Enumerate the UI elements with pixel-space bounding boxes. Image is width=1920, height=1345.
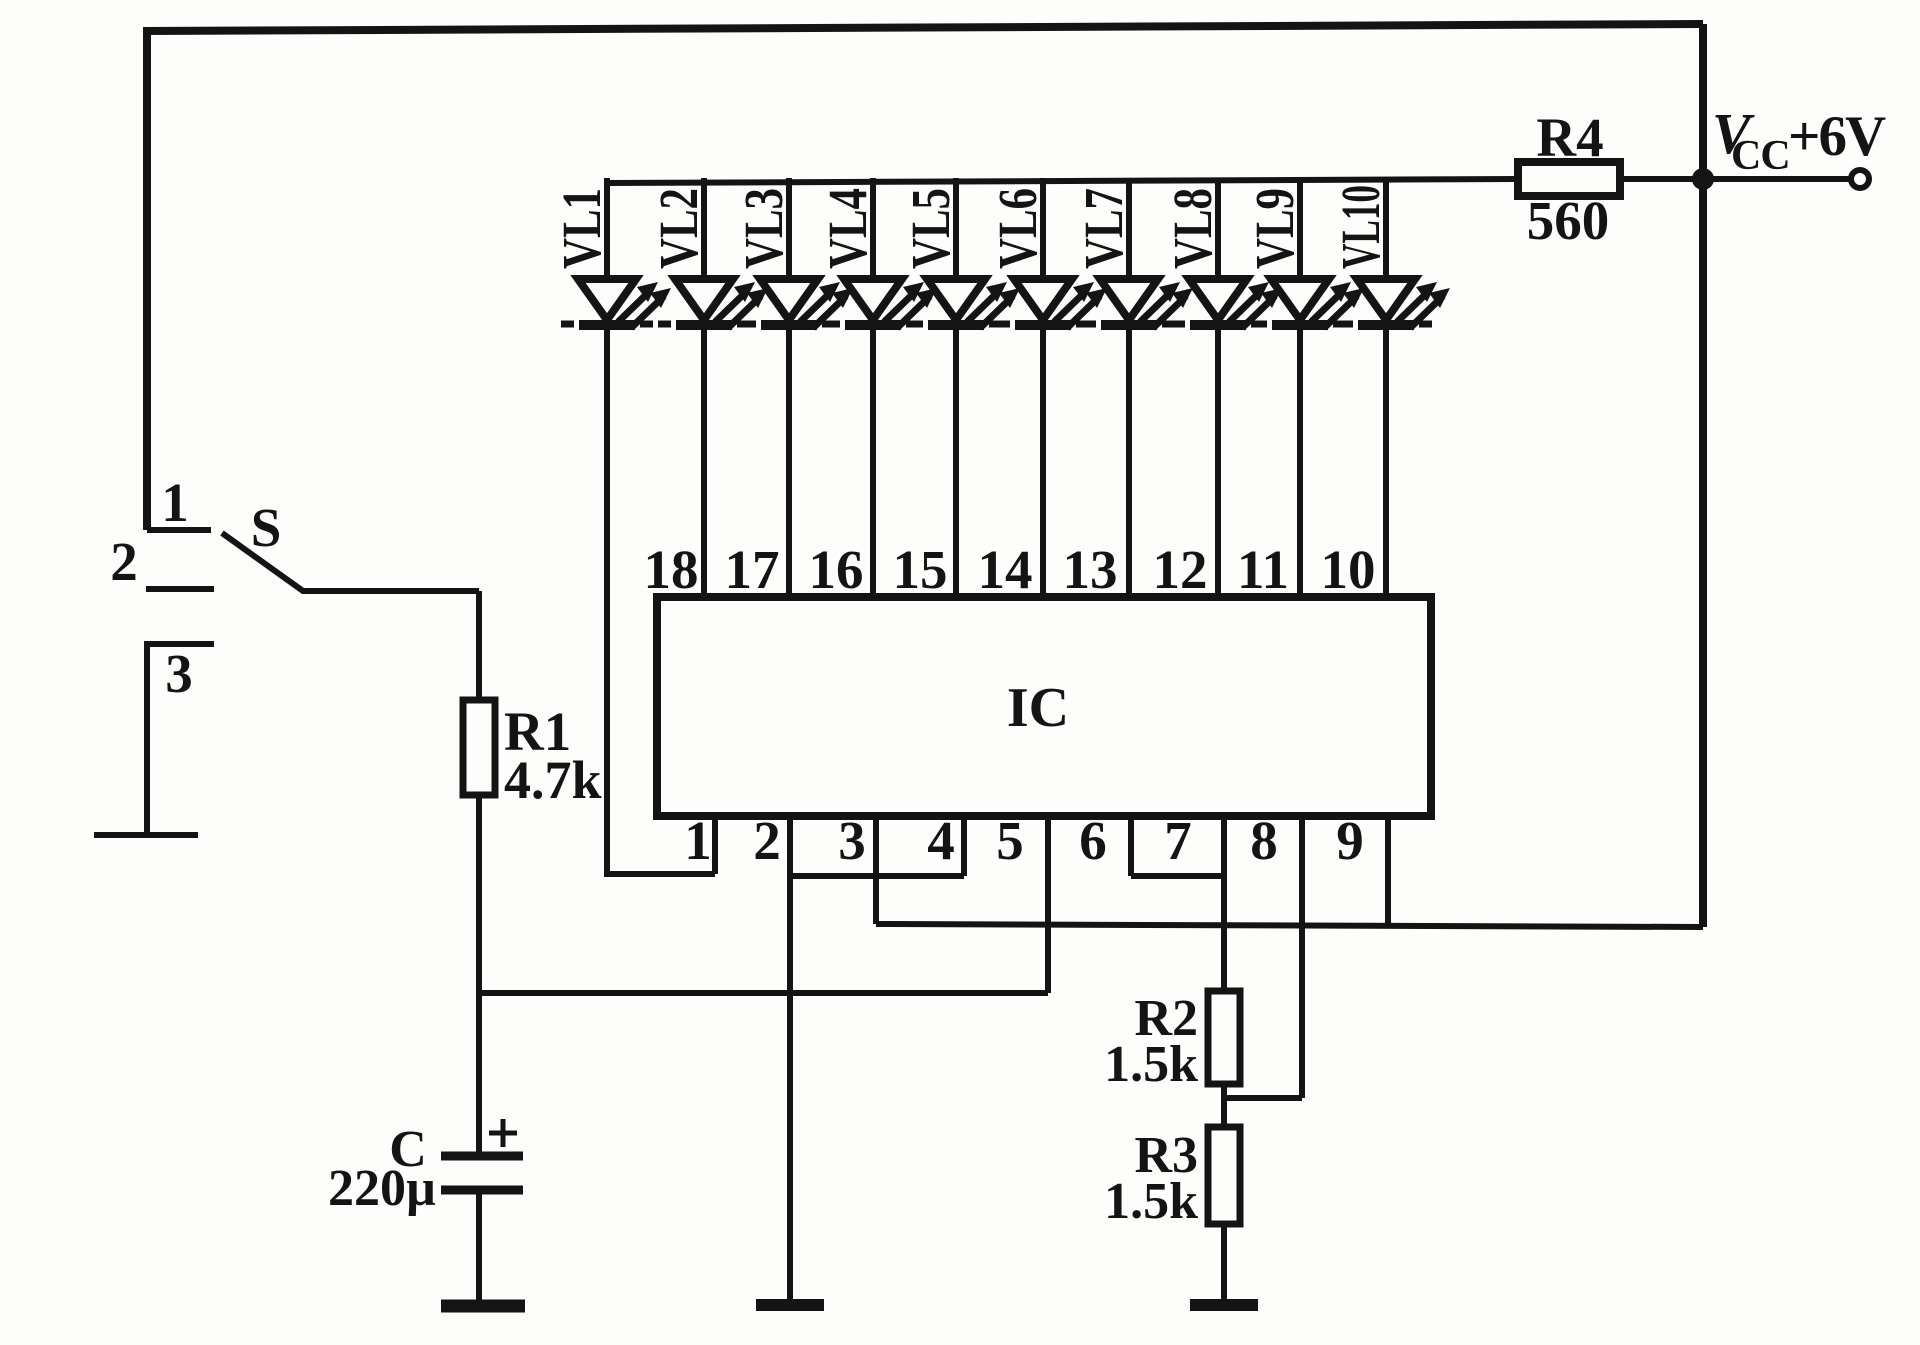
LED VL2	[648, 178, 768, 328]
switch S terminal 3	[147, 644, 214, 835]
svg-text:VL3: VL3	[733, 188, 794, 269]
wire R4 to Vcc node	[1620, 176, 1852, 182]
LED VL3	[733, 178, 853, 328]
Vcc +6V label	[1712, 101, 1886, 179]
resistor R4	[1518, 162, 1620, 196]
svg-text:R4: R4	[1536, 107, 1603, 168]
svg-text:VL8: VL8	[1162, 188, 1223, 269]
svg-text:11: 11	[1237, 539, 1289, 600]
svg-text:+6V: +6V	[1788, 105, 1886, 168]
svg-text:3: 3	[165, 643, 193, 704]
LED VL10	[1330, 178, 1450, 328]
node Vcc junction dot	[1692, 168, 1714, 190]
svg-text:1: 1	[161, 472, 189, 533]
wire pin 2 to pin 4	[790, 873, 964, 879]
IC pin 6 stub	[1128, 817, 1134, 876]
wire VL10 cathode to IC pin 10	[1383, 325, 1389, 597]
wire VL1 cathode down to pin-1 route	[604, 325, 610, 874]
IC pin 2 wire to ground	[787, 817, 793, 1301]
terminal 3 end bar	[94, 832, 198, 838]
LED VL7	[1073, 178, 1193, 328]
svg-text:220µ: 220µ	[328, 1160, 436, 1217]
svg-text:VL2: VL2	[648, 188, 709, 269]
IC pin 1 stub	[712, 817, 718, 874]
wire R3 bottom to ground	[1221, 1224, 1227, 1301]
svg-text:1.5k: 1.5k	[1104, 1173, 1198, 1230]
svg-text:2: 2	[110, 531, 138, 592]
IC pin 3 wire down	[873, 817, 879, 924]
LED VL6	[987, 178, 1107, 328]
wire VL3 cathode to IC pin 17	[786, 325, 792, 597]
svg-text:9: 9	[1336, 810, 1364, 871]
svg-text:IC: IC	[1007, 677, 1069, 739]
wire top rail from switch terminal 1 up and across to Vcc bus	[147, 24, 1703, 530]
svg-text:1: 1	[684, 810, 712, 871]
svg-text:1.5k: 1.5k	[1104, 1036, 1198, 1093]
ground R3	[1190, 1299, 1258, 1311]
svg-text:17: 17	[725, 539, 780, 600]
LED anode rail	[607, 179, 1518, 183]
IC pin 9 wire down	[1385, 817, 1391, 924]
wire pin 3 / pin 9 to Vcc bus	[876, 924, 1703, 927]
LED VL8	[1162, 178, 1282, 328]
wire R2/R3 junction to pin 8	[1224, 1095, 1302, 1101]
svg-text:VL9: VL9	[1244, 188, 1305, 269]
wire pin 5 to R1/C junction	[479, 990, 1048, 996]
wire R1 bottom to capacitor C	[476, 795, 482, 1156]
svg-text:VL4: VL4	[817, 188, 878, 269]
IC pin 4 stub	[961, 817, 967, 876]
LED VL5	[900, 178, 1020, 328]
svg-text:2: 2	[753, 810, 781, 871]
ground C	[441, 1300, 525, 1313]
IC pin 8 wire	[1299, 817, 1305, 1098]
svg-text:3: 3	[838, 810, 866, 871]
capacitor C polarized top plate	[441, 1152, 523, 1161]
wire VL6 cathode to IC pin 14	[1040, 325, 1046, 597]
svg-text:560: 560	[1527, 190, 1610, 251]
svg-text:6: 6	[1079, 810, 1107, 871]
switch S blade	[222, 533, 479, 591]
svg-text:14: 14	[978, 539, 1033, 600]
switch S terminal 2 stub	[146, 586, 214, 592]
wire VL4 cathode to IC pin 16	[870, 325, 876, 597]
LED VL4	[817, 178, 937, 328]
IC pin 7 wire to R2	[1221, 817, 1227, 991]
switch S terminal 1 stub	[147, 527, 211, 533]
resistor R1	[463, 700, 495, 795]
wire C bottom to ground	[476, 1190, 482, 1301]
svg-text:VL7: VL7	[1073, 188, 1134, 269]
wire R2 bottom to R3 top	[1221, 1084, 1227, 1127]
op-amp IC box	[657, 597, 1431, 816]
svg-text:VL6: VL6	[987, 188, 1048, 269]
ground pin 2	[756, 1299, 824, 1311]
svg-text:15: 15	[893, 539, 948, 600]
wire VL5 cathode to IC pin 15	[953, 325, 959, 597]
svg-text:12: 12	[1153, 539, 1208, 600]
svg-text:18: 18	[644, 539, 699, 600]
svg-text:13: 13	[1063, 539, 1118, 600]
svg-text:10: 10	[1321, 539, 1376, 600]
svg-text:VL1: VL1	[551, 188, 612, 269]
wire VL1 to pin 1	[604, 871, 715, 877]
svg-text:4.7k: 4.7k	[504, 750, 602, 810]
wire switch to R1 top	[476, 591, 482, 700]
svg-text:CC: CC	[1731, 133, 1790, 179]
wire VL9 cathode to IC pin 11	[1297, 325, 1303, 597]
svg-text:16: 16	[809, 539, 864, 600]
svg-text:VL10: VL10	[1330, 185, 1391, 269]
svg-text:5: 5	[996, 810, 1024, 871]
wire VL7 cathode to IC pin 13	[1126, 325, 1132, 597]
wire pin 6 to pin 7	[1131, 873, 1224, 879]
capacitor C plus sign	[489, 1119, 517, 1147]
LED VL9	[1244, 178, 1364, 328]
svg-text:S: S	[251, 497, 282, 558]
LED VL1	[551, 178, 671, 328]
capacitor C bottom plate	[441, 1186, 523, 1195]
resistor R2	[1208, 991, 1240, 1084]
wire VL2 cathode to IC pin 18	[701, 325, 707, 597]
wire VL8 cathode to IC pin 12	[1215, 325, 1221, 597]
svg-text:8: 8	[1250, 810, 1278, 871]
svg-text:4: 4	[927, 810, 955, 871]
wire Vcc bus vertical right side	[1699, 24, 1707, 927]
Vcc supply terminal circle	[1851, 170, 1869, 188]
resistor R3	[1208, 1127, 1240, 1224]
svg-text:VL5: VL5	[900, 188, 961, 269]
svg-text:7: 7	[1164, 810, 1192, 871]
IC pin 5 wire down	[1045, 817, 1051, 993]
